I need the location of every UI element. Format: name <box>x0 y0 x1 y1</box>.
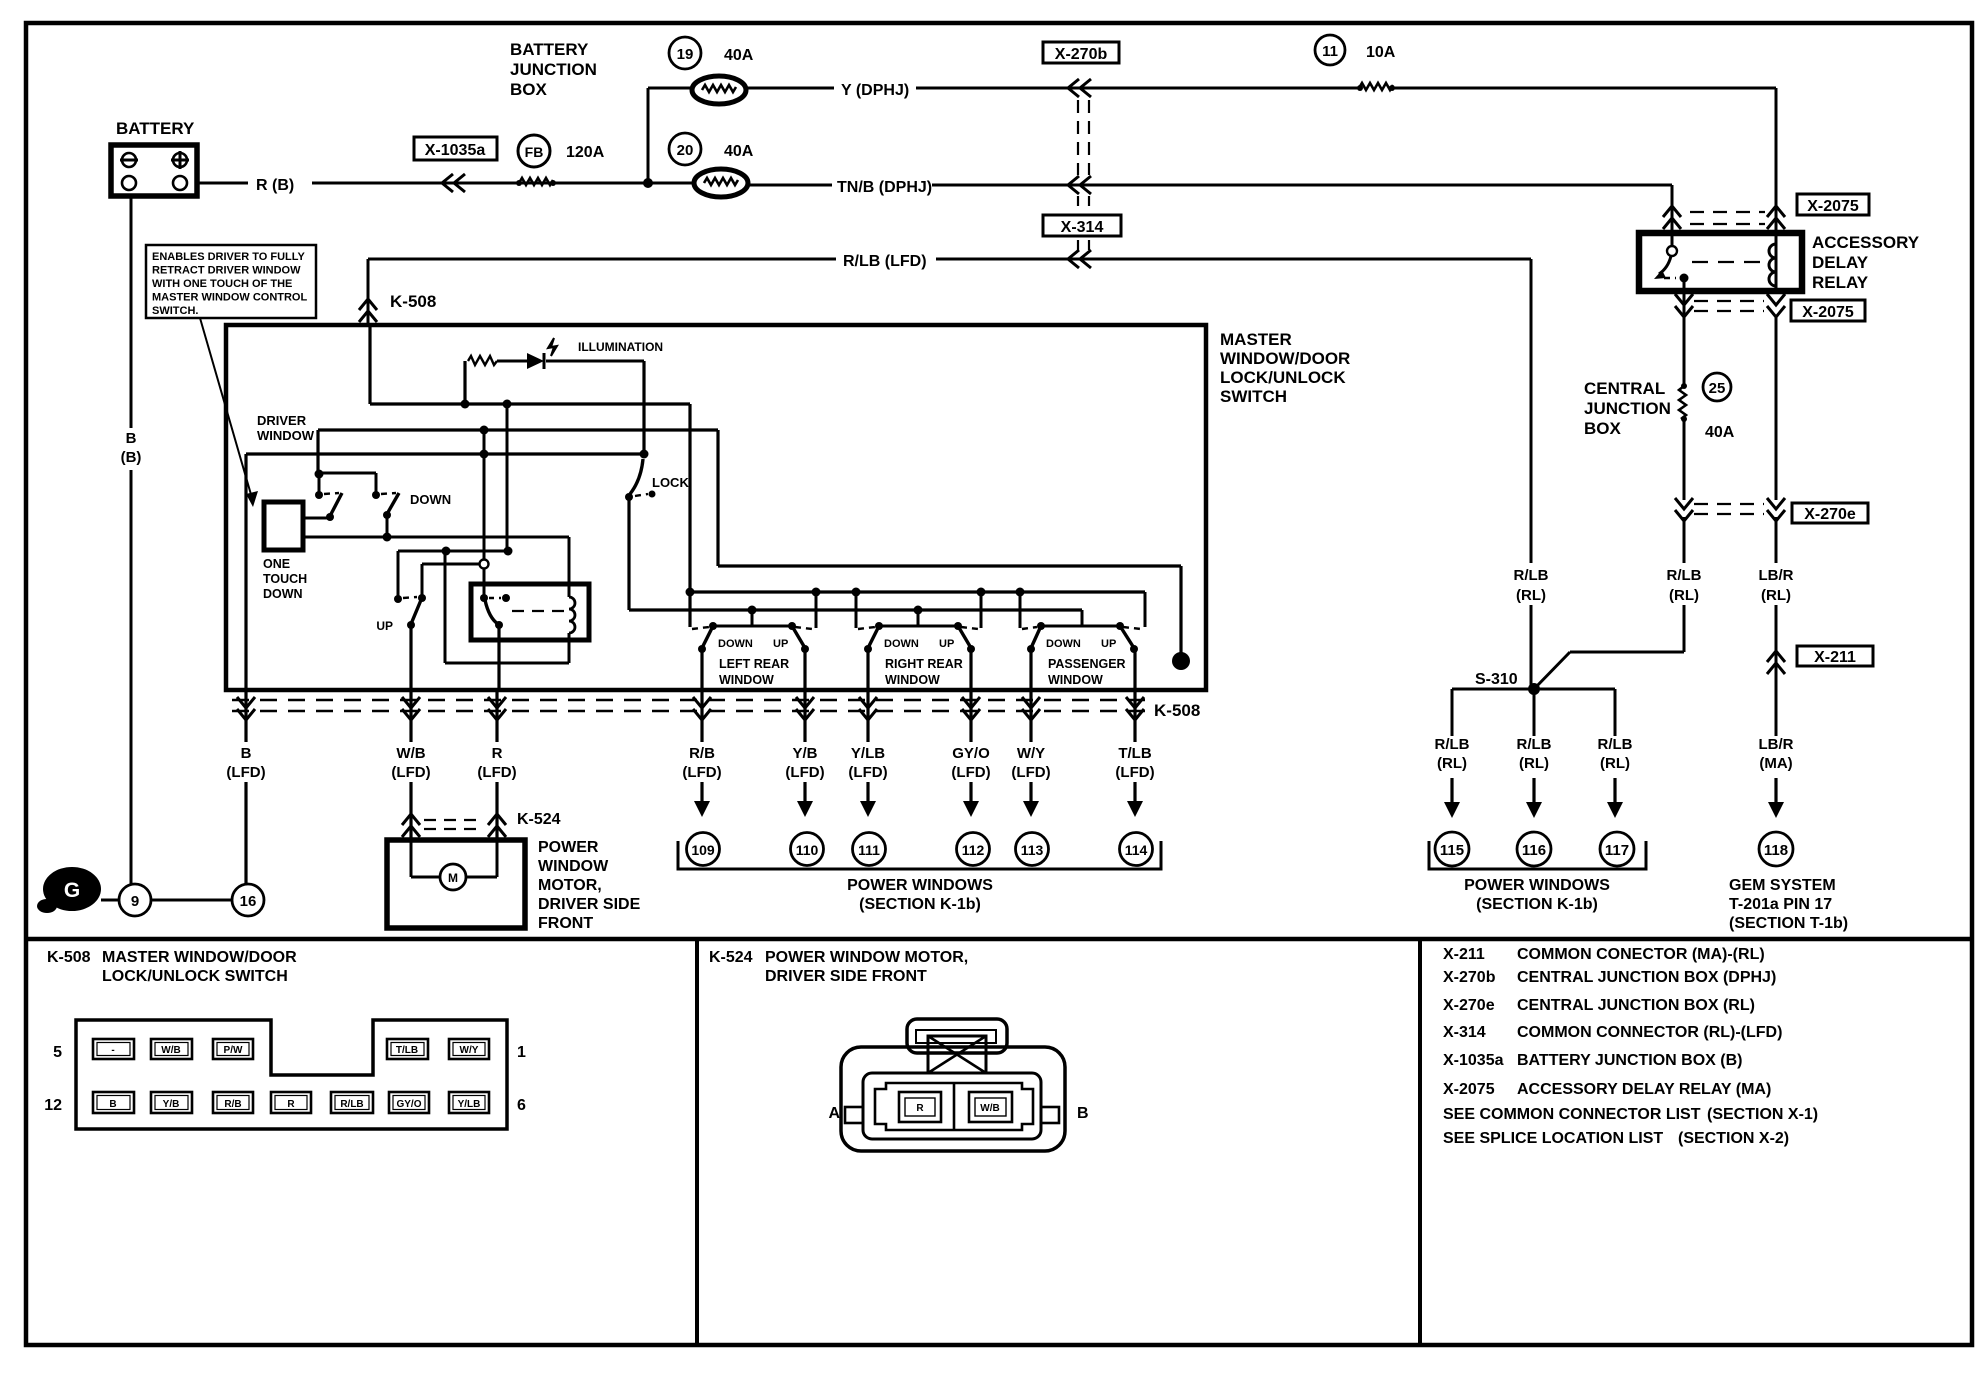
svg-text:R/LB: R/LB <box>1514 567 1549 584</box>
svg-text:RELAY: RELAY <box>1812 273 1869 292</box>
svg-text:40A: 40A <box>724 143 754 160</box>
bus wire y592 <box>690 590 1145 593</box>
svg-text:LB/R: LB/R <box>1759 567 1794 584</box>
svg-text:W/B: W/B <box>396 745 425 762</box>
wire R (B) from battery to fuse 20 <box>197 182 694 185</box>
svg-text:LOCK/UNLOCK SWITCH: LOCK/UNLOCK SWITCH <box>102 968 288 985</box>
bottom panel divider vertical 2 <box>1418 939 1422 1345</box>
note box <box>146 245 316 318</box>
svg-text:DOWN: DOWN <box>718 638 753 650</box>
svg-text:SEE COMMON CONNECTOR LIST: SEE COMMON CONNECTOR LIST <box>1443 1106 1701 1123</box>
connector X-270b label box <box>1043 42 1119 63</box>
K-524 side lock tabs <box>845 1107 863 1123</box>
svg-text:40A: 40A <box>724 47 754 64</box>
svg-text:113: 113 <box>1021 842 1044 858</box>
fuse 25 circle <box>1703 373 1731 401</box>
note leader line <box>200 318 252 498</box>
svg-text:BATTERY: BATTERY <box>510 40 589 59</box>
passenger window switch <box>1041 625 1120 628</box>
illumination diode <box>527 353 544 369</box>
node circles 115 116 117 118 <box>1435 832 1469 866</box>
wire TN/B (DPHJ) from fuse 20 <box>748 184 1672 187</box>
wire R/LB (LFD) <box>368 258 1531 261</box>
svg-text:CENTRAL JUNCTION BOX (DPHJ): CENTRAL JUNCTION BOX (DPHJ) <box>1517 969 1776 986</box>
svg-text:X-211: X-211 <box>1814 649 1856 666</box>
K-524 pin housing <box>875 1083 1033 1130</box>
svg-text:K-524: K-524 <box>709 949 753 966</box>
svg-text:Y/LB: Y/LB <box>458 1099 481 1110</box>
wire B (B) battery to ground circle 9 <box>130 196 133 884</box>
svg-text:(LFD): (LFD) <box>951 764 990 781</box>
fusible link FB on R (B) wire <box>519 178 553 185</box>
connector chevrons on R/LB wire <box>1068 250 1091 268</box>
svg-text:DOWN: DOWN <box>263 587 303 601</box>
connector X-270b dashed boundary <box>1077 100 1079 175</box>
connector X-211 chevrons <box>1767 651 1785 674</box>
svg-text:K-508: K-508 <box>47 949 91 966</box>
svg-text:LEFT REAR: LEFT REAR <box>719 657 789 671</box>
wire W/B from up switch <box>409 625 412 690</box>
svg-text:-: - <box>111 1045 114 1056</box>
bus wire y610 lock feed <box>629 608 1082 611</box>
one touch relay contacts <box>480 594 488 602</box>
svg-text:BOX: BOX <box>1584 419 1622 438</box>
svg-text:(RL): (RL) <box>1516 587 1546 604</box>
wire y564 with terminal <box>422 563 479 566</box>
fuse 19 circle <box>669 37 701 69</box>
svg-text:Y/LB: Y/LB <box>851 745 885 762</box>
svg-text:W/B: W/B <box>980 1103 999 1114</box>
connector chevrons on TN/B wire <box>1068 176 1091 194</box>
svg-text:WINDOW: WINDOW <box>1048 673 1103 687</box>
illumination circuit <box>463 361 466 404</box>
wire K-508 feed inside box <box>368 325 371 404</box>
svg-text:FRONT: FRONT <box>538 915 593 932</box>
svg-text:116: 116 <box>1522 842 1546 859</box>
center taps from lock bus <box>751 610 754 626</box>
svg-text:MOTOR,: MOTOR, <box>538 877 602 894</box>
svg-text:CENTRAL JUNCTION BOX (RL): CENTRAL JUNCTION BOX (RL) <box>1517 997 1755 1014</box>
svg-text:X-270b: X-270b <box>1055 46 1108 63</box>
svg-text:ACCESSORY DELAY RELAY (MA): ACCESSORY DELAY RELAY (MA) <box>1517 1081 1771 1098</box>
svg-text:DRIVER SIDE FRONT: DRIVER SIDE FRONT <box>765 968 927 985</box>
svg-text:R (B): R (B) <box>256 177 294 194</box>
connector X-2075 bottom chevrons <box>1675 294 1693 317</box>
arrows to circles 109-114 <box>694 801 1143 817</box>
svg-text:(LFD): (LFD) <box>682 764 721 781</box>
connector chevrons on R (B) wire <box>442 174 465 192</box>
accessory delay relay K box <box>1639 233 1802 291</box>
connector X-2075 top chevrons <box>1663 206 1681 229</box>
svg-text:WINDOW: WINDOW <box>538 858 609 875</box>
svg-text:X-211: X-211 <box>1443 946 1485 963</box>
ground symbol G <box>43 867 101 911</box>
svg-text:JUNCTION: JUNCTION <box>510 60 597 79</box>
svg-text:X-1035a: X-1035a <box>425 142 486 159</box>
label LB/R (RL) <box>1749 563 1803 605</box>
K-508 pin row 1 <box>93 1039 489 1059</box>
svg-text:RIGHT REAR: RIGHT REAR <box>885 657 963 671</box>
bottom panel divider vertical 1 <box>695 939 699 1345</box>
label TN/B (DPHJ) <box>832 174 932 196</box>
svg-text:X-270e: X-270e <box>1804 506 1856 523</box>
driver window down switch 1 <box>315 491 323 499</box>
svg-text:PASSENGER: PASSENGER <box>1048 657 1126 671</box>
terminal node dot <box>1172 652 1190 670</box>
label B (B) <box>118 428 146 470</box>
svg-text:(SECTION K-1b): (SECTION K-1b) <box>859 896 981 913</box>
svg-text:WINDOW: WINDOW <box>885 673 940 687</box>
svg-text:117: 117 <box>1605 842 1629 859</box>
right rear window output wires <box>866 649 869 690</box>
svg-text:K-508: K-508 <box>1154 701 1200 720</box>
connector X-1035a label box <box>414 137 497 160</box>
svg-text:(LFD): (LFD) <box>226 764 265 781</box>
connector X-211 label box <box>1797 646 1873 666</box>
node circles 109-114 <box>687 833 720 866</box>
svg-text:JUNCTION: JUNCTION <box>1584 399 1671 418</box>
svg-text:TOUCH: TOUCH <box>263 572 307 586</box>
svg-text:R/LB: R/LB <box>1598 736 1633 753</box>
lock output wire <box>627 497 630 610</box>
svg-text:DOWN: DOWN <box>410 492 451 507</box>
power window motor box K-524 <box>387 840 525 928</box>
bus wire y430 <box>318 428 718 431</box>
wire junction vertical to fuse 19 <box>647 88 650 183</box>
svg-text:(SECTION X-1): (SECTION X-1) <box>1707 1106 1818 1123</box>
svg-text:R: R <box>287 1099 295 1110</box>
svg-text:R/LB (LFD): R/LB (LFD) <box>843 253 927 270</box>
svg-text:W/B: W/B <box>161 1045 180 1056</box>
svg-text:Y/B: Y/B <box>163 1099 180 1110</box>
connector K-524 chevrons <box>402 814 420 837</box>
wire R/LB (RL) middle vertical <box>1683 517 1686 652</box>
svg-text:LOCK/UNLOCK: LOCK/UNLOCK <box>1220 368 1346 387</box>
svg-text:MASTER WINDOW/DOOR: MASTER WINDOW/DOOR <box>102 949 297 966</box>
svg-text:DRIVER: DRIVER <box>257 413 307 428</box>
fuse 11 circle <box>1315 35 1345 65</box>
wire Y (DPHJ) from fuse 19 <box>746 87 1360 90</box>
svg-text:(LFD): (LFD) <box>391 764 430 781</box>
svg-text:X-1035a: X-1035a <box>1443 1052 1504 1069</box>
svg-text:MASTER WINDOW CONTROL: MASTER WINDOW CONTROL <box>152 292 307 304</box>
svg-text:5: 5 <box>53 1044 62 1061</box>
svg-text:BOX: BOX <box>510 80 548 99</box>
svg-text:X-270b: X-270b <box>1443 969 1496 986</box>
one touch relay coil loop <box>303 536 569 539</box>
svg-text:B: B <box>241 745 252 762</box>
one touch down box <box>264 502 303 550</box>
svg-text:T-201a PIN 17: T-201a PIN 17 <box>1729 896 1832 913</box>
arrows to circles 115-118 <box>1452 778 1776 804</box>
connector X-2075 top label box <box>1797 194 1869 215</box>
driver window down switch 2 <box>372 491 380 499</box>
svg-text:DRIVER SIDE: DRIVER SIDE <box>538 896 641 913</box>
left rear window output wires <box>700 649 703 690</box>
svg-text:R/LB: R/LB <box>1667 567 1702 584</box>
one touch relay box <box>471 584 589 640</box>
svg-text:SWITCH: SWITCH <box>1220 387 1287 406</box>
K-524 connector inner body <box>863 1073 1041 1139</box>
svg-text:118: 118 <box>1764 842 1788 859</box>
fuse 19 element <box>692 76 746 104</box>
svg-text:11: 11 <box>1322 43 1338 60</box>
K-524 pin R <box>899 1092 941 1122</box>
svg-text:X-314: X-314 <box>1443 1024 1486 1041</box>
wire Y vertical to relay <box>1775 88 1778 233</box>
svg-text:T/LB: T/LB <box>1118 745 1151 762</box>
label Y (DPHJ) <box>834 77 916 99</box>
driver window down switch feed <box>316 430 319 474</box>
illumination return wire <box>642 361 645 453</box>
ground node 16 <box>151 899 232 902</box>
bracket power windows left <box>678 841 1161 869</box>
svg-text:BATTERY JUNCTION BOX (B): BATTERY JUNCTION BOX (B) <box>1517 1052 1742 1069</box>
svg-text:COMMON CONNECTOR (RL)-(LFD): COMMON CONNECTOR (RL)-(LFD) <box>1517 1024 1782 1041</box>
svg-text:P/W: P/W <box>224 1045 243 1056</box>
relay switch contact <box>1671 236 1674 246</box>
svg-text:(LFD): (LFD) <box>1115 764 1154 781</box>
svg-text:LB/R: LB/R <box>1759 736 1794 753</box>
svg-text:W/Y: W/Y <box>460 1045 479 1056</box>
connector X-2075 bottom label box <box>1791 300 1865 321</box>
master window/door lock/unlock switch box K-508 <box>226 325 1206 690</box>
K-524 connector outer body <box>841 1047 1065 1151</box>
wire TN/B vertical to relay <box>1671 185 1674 233</box>
connector K-508 bottom dashed boundary <box>232 699 1148 701</box>
bracket power windows right <box>1429 841 1646 869</box>
svg-text:SEE SPLICE LOCATION LIST: SEE SPLICE LOCATION LIST <box>1443 1130 1663 1147</box>
wire jog to splice S-310 <box>1570 651 1684 654</box>
wire R from one touch relay <box>497 625 500 690</box>
svg-text:1: 1 <box>517 1044 526 1061</box>
fuse 11 element on Y wire <box>1359 83 1393 90</box>
fuse 20 circle <box>669 133 701 165</box>
svg-text:Y/B: Y/B <box>792 745 817 762</box>
svg-text:R/LB: R/LB <box>1435 736 1470 753</box>
relay internal dashed link <box>1692 261 1766 263</box>
svg-text:B: B <box>109 1099 116 1110</box>
svg-text:16: 16 <box>240 893 257 910</box>
svg-text:G: G <box>64 879 80 902</box>
K-508 pin row 2 <box>93 1092 489 1113</box>
svg-text:BATTERY: BATTERY <box>116 119 195 138</box>
svg-text:K-524: K-524 <box>517 811 561 828</box>
svg-text:(SECTION K-1b): (SECTION K-1b) <box>1476 896 1598 913</box>
svg-text:ONE: ONE <box>263 557 290 571</box>
bus wire y430 drop via x718 and y566 to terminal <box>716 430 719 566</box>
svg-text:DELAY: DELAY <box>1812 253 1869 272</box>
passenger window output wires <box>1029 649 1032 690</box>
svg-text:GY/O: GY/O <box>396 1099 421 1110</box>
svg-text:ILLUMINATION: ILLUMINATION <box>578 340 663 354</box>
label R (B) <box>248 171 312 193</box>
fuse 20 element <box>694 169 748 197</box>
svg-text:109: 109 <box>691 842 715 858</box>
wire into master switch <box>367 259 370 325</box>
svg-text:UP: UP <box>939 638 954 650</box>
bus wire y404 <box>370 402 690 405</box>
svg-text:K-508: K-508 <box>390 292 436 311</box>
svg-text:(RL): (RL) <box>1519 755 1549 772</box>
motor M <box>410 840 413 877</box>
svg-text:R: R <box>492 745 503 762</box>
svg-text:RETRACT DRIVER WINDOW: RETRACT DRIVER WINDOW <box>152 265 301 277</box>
bus wire y404 drop at x690 <box>688 404 691 627</box>
label R/LB (RL) left <box>1504 563 1558 605</box>
svg-text:20: 20 <box>677 142 694 159</box>
label R/LB (LFD) <box>836 248 936 270</box>
svg-text:UP: UP <box>773 638 788 650</box>
svg-text:X-2075: X-2075 <box>1807 198 1859 215</box>
svg-text:CENTRAL: CENTRAL <box>1584 379 1665 398</box>
wire y551 <box>398 550 509 553</box>
bus drops to window switches <box>815 592 818 628</box>
wire drops from S-310 <box>1451 689 1454 736</box>
svg-text:25: 25 <box>1709 380 1726 397</box>
K-508 connector outline <box>76 1020 507 1129</box>
svg-text:POWER WINDOW MOTOR,: POWER WINDOW MOTOR, <box>765 949 968 966</box>
node junction of fuse feed <box>643 178 653 188</box>
svg-text:DOWN: DOWN <box>884 638 919 650</box>
connector X-270e chevrons <box>1675 498 1693 521</box>
svg-text:R: R <box>916 1103 924 1114</box>
illumination lamp arrow <box>548 338 557 356</box>
svg-text:(RL): (RL) <box>1761 587 1791 604</box>
svg-text:120A: 120A <box>566 144 605 161</box>
svg-text:R/B: R/B <box>689 745 715 762</box>
svg-text:WINDOW/DOOR: WINDOW/DOOR <box>1220 349 1350 368</box>
svg-text:(LFD): (LFD) <box>477 764 516 781</box>
wire B inside box <box>244 454 247 690</box>
svg-text:FB: FB <box>525 144 544 160</box>
svg-text:(LFD): (LFD) <box>1011 764 1050 781</box>
svg-text:(B): (B) <box>121 449 142 466</box>
left rear window switch <box>713 625 792 628</box>
K-524 connector face top tab <box>907 1019 1007 1053</box>
connector K-508 entry chevrons <box>359 299 377 322</box>
wire labels below K-508 <box>222 742 1159 782</box>
svg-text:R/LB: R/LB <box>1517 736 1552 753</box>
battery B1 <box>111 145 197 196</box>
bottom panel divider horizontal <box>26 937 1972 942</box>
svg-text:ENABLES DRIVER TO FULLY: ENABLES DRIVER TO FULLY <box>152 251 305 263</box>
svg-text:115: 115 <box>1440 842 1464 859</box>
svg-text:112: 112 <box>962 842 985 858</box>
svg-text:6: 6 <box>517 1097 526 1114</box>
svg-text:TN/B (DPHJ): TN/B (DPHJ) <box>837 179 932 196</box>
up switch <box>394 595 402 603</box>
svg-text:(SECTION X-2): (SECTION X-2) <box>1678 1130 1789 1147</box>
svg-text:40A: 40A <box>1705 424 1735 441</box>
right rear window switch <box>879 625 958 628</box>
K-524 pin W/B <box>969 1092 1012 1122</box>
svg-text:R/B: R/B <box>224 1099 241 1110</box>
svg-text:S-310: S-310 <box>1475 671 1518 688</box>
svg-text:111: 111 <box>858 842 880 858</box>
svg-text:WITH ONE TOUCH OF THE: WITH ONE TOUCH OF THE <box>152 278 292 290</box>
svg-text:T/LB: T/LB <box>396 1045 418 1056</box>
connector X-270e label box <box>1792 503 1868 523</box>
connector chevrons on Y wire X-270b <box>1068 79 1091 97</box>
svg-text:M: M <box>448 871 458 885</box>
splice S-310 bar <box>1452 688 1615 691</box>
svg-text:POWER WINDOWS: POWER WINDOWS <box>847 877 993 894</box>
svg-text:114: 114 <box>1125 842 1148 858</box>
svg-text:(RL): (RL) <box>1669 587 1699 604</box>
svg-text:WINDOW: WINDOW <box>257 428 315 443</box>
svg-text:X-270e: X-270e <box>1443 997 1495 1014</box>
svg-text:DOWN: DOWN <box>1046 638 1081 650</box>
wire LB/R down from relay <box>1775 315 1778 500</box>
svg-text:B: B <box>126 430 137 447</box>
svg-text:19: 19 <box>677 46 694 63</box>
bus wire y454 ground bus <box>246 452 644 455</box>
svg-text:GEM SYSTEM: GEM SYSTEM <box>1729 877 1836 894</box>
svg-text:10A: 10A <box>1366 44 1396 61</box>
connector X-314 dashed boundary <box>1077 196 1079 211</box>
svg-text:B: B <box>1077 1105 1089 1122</box>
svg-text:110: 110 <box>796 842 819 858</box>
svg-text:(RL): (RL) <box>1437 755 1467 772</box>
svg-text:COMMON CONECTOR (MA)-(RL): COMMON CONECTOR (MA)-(RL) <box>1517 946 1765 963</box>
svg-text:9: 9 <box>131 893 139 910</box>
svg-text:Y (DPHJ): Y (DPHJ) <box>841 82 909 99</box>
ground node 9 <box>101 899 119 902</box>
relay coil <box>1775 233 1778 291</box>
wire R/LB (RL) leftmost vertical <box>1530 259 1533 689</box>
svg-text:A: A <box>828 1105 840 1122</box>
svg-text:UP: UP <box>1101 638 1116 650</box>
svg-text:UP: UP <box>376 619 393 633</box>
svg-text:LOCK: LOCK <box>652 475 689 490</box>
K-524 connector crossed box <box>928 1036 986 1073</box>
svg-text:(LFD): (LFD) <box>848 764 887 781</box>
svg-text:WINDOW: WINDOW <box>719 673 774 687</box>
fuse 25 element <box>1679 386 1686 419</box>
svg-text:POWER: POWER <box>538 839 599 856</box>
svg-text:ACCESSORY: ACCESSORY <box>1812 233 1920 252</box>
connector X-314 label box <box>1043 215 1121 236</box>
svg-text:SWITCH.: SWITCH. <box>152 305 198 317</box>
wires through K-508 with chevrons <box>246 690 1135 884</box>
svg-text:X-2075: X-2075 <box>1443 1081 1495 1098</box>
wire LB/R (MA) vertical <box>1775 517 1778 736</box>
wire relay output R/LB down <box>1683 291 1686 386</box>
svg-text:POWER WINDOWS: POWER WINDOWS <box>1464 877 1610 894</box>
lock switch <box>640 450 649 459</box>
svg-text:R/LB: R/LB <box>340 1099 363 1110</box>
svg-text:(MA): (MA) <box>1759 755 1792 772</box>
svg-text:(SECTION T-1b): (SECTION T-1b) <box>1729 915 1848 932</box>
label R/LB (RL) middle <box>1657 563 1711 605</box>
svg-text:X-314: X-314 <box>1061 219 1104 236</box>
svg-text:GY/O: GY/O <box>952 745 990 762</box>
svg-text:X-2075: X-2075 <box>1802 304 1854 321</box>
svg-text:W/Y: W/Y <box>1017 745 1045 762</box>
svg-text:MASTER: MASTER <box>1220 330 1292 349</box>
svg-text:(RL): (RL) <box>1600 755 1630 772</box>
svg-text:(LFD): (LFD) <box>785 764 824 781</box>
svg-text:12: 12 <box>44 1097 62 1114</box>
fusible link FB symbol circle <box>518 135 550 167</box>
wire relay contact feed <box>483 430 486 560</box>
